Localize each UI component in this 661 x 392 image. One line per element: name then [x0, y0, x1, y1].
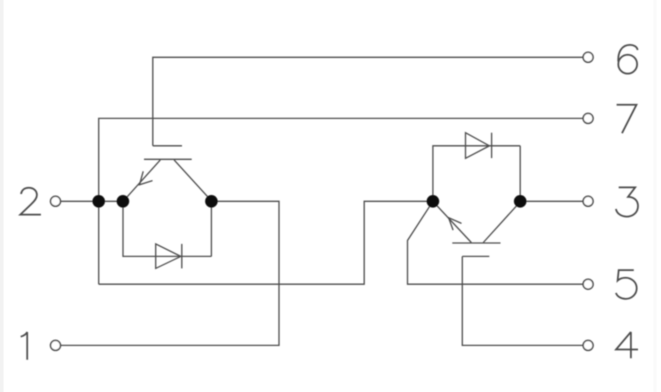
- junction node D collector Q2: [514, 195, 527, 208]
- terminal circle 2: [51, 196, 61, 206]
- transistor Q1: [124, 146, 212, 201]
- wire emitter bus left to right: [99, 201, 433, 284]
- cathode bar D2: [491, 133, 493, 158]
- emitter leg Q2: [433, 202, 471, 243]
- triangle D2: [466, 133, 490, 159]
- emitter leg Q1: [124, 160, 161, 201]
- diode D2: [433, 133, 520, 202]
- wire terminal2 to node A: [60, 200, 128, 202]
- emitter arrow Q2: [449, 218, 462, 230]
- wire terminal3 to collector Q2: [520, 200, 583, 202]
- wire terminal6 to gate Q1: [153, 57, 584, 146]
- pin label 4: [616, 332, 638, 358]
- pin label 2: [20, 188, 41, 215]
- pin label 3: [616, 187, 638, 216]
- terminal circle 1: [51, 340, 61, 350]
- junction node A1: [92, 195, 105, 208]
- collector leg Q1: [174, 160, 211, 201]
- terminal circle 6: [583, 52, 593, 62]
- anode wire D1: [123, 201, 211, 256]
- gate bar Q1: [153, 145, 182, 147]
- body bar Q2: [452, 242, 500, 244]
- wire terminal4 to gate Q2: [462, 256, 583, 345]
- terminal circle 5: [583, 279, 593, 289]
- cathode wire D1: [210, 201, 212, 256]
- triangle D1: [156, 244, 181, 269]
- wire collector Q1 to terminal1: [60, 201, 279, 345]
- pin label 1: [21, 332, 28, 360]
- pin label 5: [616, 270, 637, 299]
- wire terminal7 to node A: [99, 118, 584, 284]
- anode wire D2: [433, 146, 520, 202]
- terminal circle 3: [583, 196, 593, 206]
- wire terminal5 to emitter Q2: [408, 201, 584, 284]
- terminal circle 7: [583, 113, 593, 123]
- gate bar Q2: [462, 255, 489, 257]
- transistor Q2: [433, 202, 520, 257]
- junction node B collector Q1: [205, 195, 218, 208]
- pin label 6: [618, 45, 637, 74]
- junction node C emitter Q2: [427, 195, 440, 208]
- pin label 7: [617, 105, 637, 134]
- terminal circle 4: [583, 340, 593, 350]
- cathode wire D2: [519, 146, 521, 202]
- body bar Q1: [144, 158, 192, 160]
- emitter arrow Q1: [140, 171, 153, 185]
- collector leg Q2: [483, 202, 520, 243]
- diode D1: [123, 201, 211, 268]
- cathode bar D1: [181, 244, 183, 269]
- junction node A2 emitter Q1: [117, 195, 130, 208]
